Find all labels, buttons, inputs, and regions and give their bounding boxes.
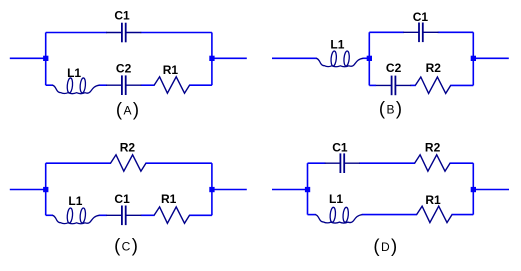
svg-text:L1: L1 xyxy=(330,38,344,52)
wire: left vertical B xyxy=(368,32,370,85)
svg-text:R2: R2 xyxy=(120,141,136,155)
node C-right xyxy=(209,187,214,192)
wire: bottom D R1-to-node xyxy=(452,214,474,216)
wire: top wire A right xyxy=(141,32,212,34)
svg-text:C2: C2 xyxy=(116,62,132,76)
resistor R1 (C) xyxy=(154,207,189,223)
inductor L1 (C) xyxy=(52,208,99,224)
wire: top wire B left xyxy=(369,31,404,33)
capacitor C1 (B top) xyxy=(403,23,438,43)
svg-text:C1: C1 xyxy=(114,9,130,23)
capacitor C1 (C bottom) xyxy=(106,206,141,226)
capacitor C1 (A top) xyxy=(106,23,141,43)
node D-left xyxy=(305,187,310,192)
wire: top wire B right xyxy=(438,31,474,33)
svg-text:R1: R1 xyxy=(161,192,177,206)
inductor L1 (A) xyxy=(52,78,99,94)
svg-text:(D): (D) xyxy=(373,235,398,256)
inductor L1 (B) xyxy=(316,51,363,67)
wire: right lead C xyxy=(212,189,247,191)
wire: bottom C L1-to-C1 xyxy=(99,214,107,216)
svg-text:R1: R1 xyxy=(425,193,441,207)
node B-right xyxy=(471,56,476,61)
resistor R1 (A) xyxy=(154,77,189,93)
capacitor C1 (D top) xyxy=(325,153,360,173)
resistor R2 (D) xyxy=(415,155,450,171)
capacitor C2 (A bottom) xyxy=(106,75,141,95)
wire: bottom A L1-to-C2 xyxy=(99,84,107,86)
wire: right lead A xyxy=(212,57,247,59)
wire: left lead C xyxy=(10,189,46,191)
wire: left lead A xyxy=(10,33,247,86)
svg-text:C2: C2 xyxy=(386,61,402,75)
wire: top wire C left xyxy=(46,162,111,164)
wire: right lead D xyxy=(473,189,509,191)
svg-text:C1: C1 xyxy=(114,192,130,206)
wire: bottom A C2-to-R1 xyxy=(141,84,155,86)
capacitor C2 (B bottom) xyxy=(376,76,411,96)
wire: top wire D left xyxy=(308,162,326,164)
wire: right vertical D xyxy=(472,163,474,214)
svg-text:L1: L1 xyxy=(67,66,81,80)
wire: top wire C right xyxy=(145,162,212,164)
wire: bottom D node-to-L1 xyxy=(308,214,316,216)
resistor R1 (D) xyxy=(417,206,452,222)
wire: left lead B xyxy=(272,57,317,59)
svg-text:(A): (A) xyxy=(116,98,141,119)
node A-left xyxy=(43,56,48,61)
node A-right xyxy=(209,56,214,61)
svg-text:R1: R1 xyxy=(163,63,179,77)
wire: bottom B node-to-C2 xyxy=(369,84,376,86)
wire: bottom D L1-to-R1 xyxy=(362,214,417,216)
wire: bottom C C1-to-R1 xyxy=(141,214,155,216)
wire: bottom A R1-to-node xyxy=(189,84,212,86)
node B-left xyxy=(367,56,372,61)
wire: bottom C node-to-L1 xyxy=(46,214,53,216)
resistor R2 (B) xyxy=(415,77,450,93)
wire: right vertical A xyxy=(211,33,213,86)
node C-left xyxy=(43,187,48,192)
inductor L1 (D) xyxy=(315,207,362,223)
svg-text:L1: L1 xyxy=(329,192,343,206)
wire: bottom C R1-to-node xyxy=(189,214,212,216)
wire: bottom B R2-to-node xyxy=(450,84,473,86)
svg-text:C1: C1 xyxy=(413,10,429,24)
wire: right vertical C xyxy=(211,163,213,215)
wire: B L1-to-node xyxy=(363,57,370,59)
wire: left vertical D xyxy=(307,163,309,214)
svg-text:C1: C1 xyxy=(332,140,348,154)
svg-text:R2: R2 xyxy=(425,141,441,155)
node D-right xyxy=(471,187,476,192)
resistor R2 (C top) xyxy=(111,155,146,171)
svg-text:R2: R2 xyxy=(426,61,442,75)
wire: bottom B C2-to-R2 xyxy=(410,84,415,86)
wire: left vertical C xyxy=(45,163,47,215)
wire: top wire D right xyxy=(450,162,474,164)
wire: right lead B xyxy=(473,57,509,59)
svg-text:(B): (B) xyxy=(379,98,404,119)
wire: right vertical B xyxy=(472,32,474,85)
svg-text:L1: L1 xyxy=(68,194,82,208)
wire: bottom A node-to-L1 xyxy=(46,84,53,86)
wire: top wire D mid xyxy=(359,162,415,164)
wire: top wire A left xyxy=(46,32,107,34)
wire: left lead D xyxy=(272,189,308,191)
svg-text:(C): (C) xyxy=(114,234,139,255)
wire: left vertical A xyxy=(45,33,47,86)
